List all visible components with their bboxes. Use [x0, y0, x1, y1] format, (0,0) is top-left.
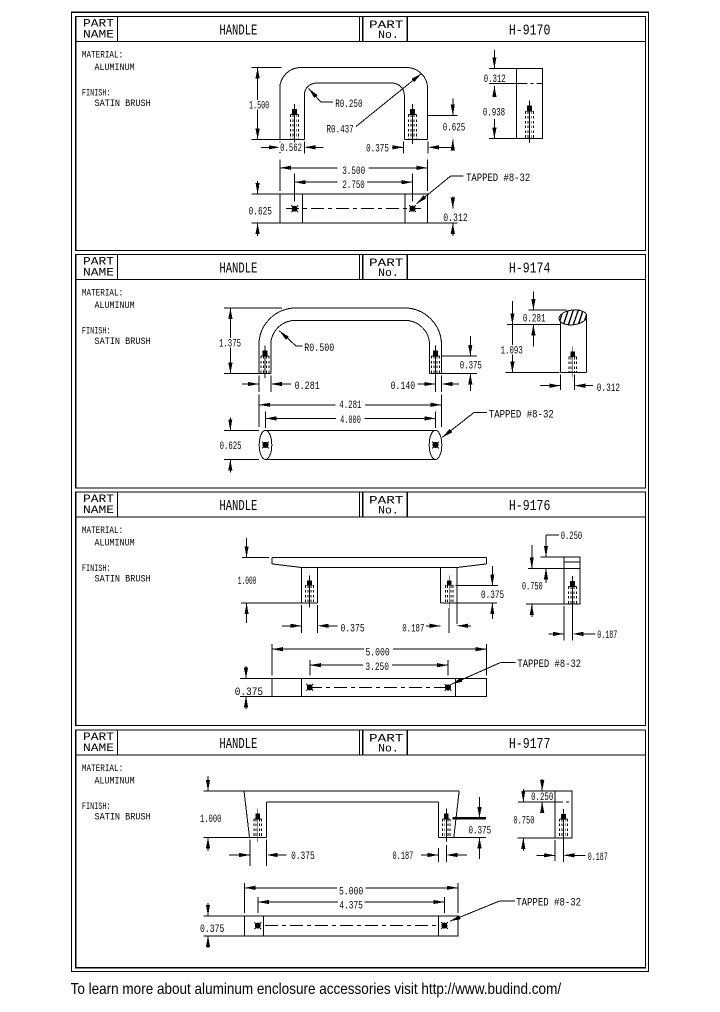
svg-text:No.: No.	[378, 30, 399, 42]
svg-text:H-9174: H-9174	[509, 260, 551, 277]
svg-text:TAPPED #8-32: TAPPED #8-32	[517, 659, 581, 671]
svg-text:MATERIAL:: MATERIAL:	[82, 51, 123, 62]
svg-text:0.938: 0.938	[483, 108, 505, 120]
svg-text:1.375: 1.375	[219, 339, 241, 351]
svg-text:R0.250: R0.250	[335, 99, 362, 111]
svg-text:0.375: 0.375	[366, 144, 389, 156]
svg-text:To learn more about aluminum e: To learn more about aluminum enclosure a…	[71, 981, 562, 998]
svg-text:0.375: 0.375	[200, 924, 224, 936]
svg-text:4.375: 4.375	[339, 900, 363, 912]
svg-text:HANDLE: HANDLE	[219, 261, 257, 277]
svg-text:0.625: 0.625	[220, 441, 242, 453]
svg-text:ALUMINUM: ALUMINUM	[95, 301, 135, 312]
svg-text:0.562: 0.562	[280, 143, 302, 155]
svg-text:SATIN BRUSH: SATIN BRUSH	[95, 99, 151, 110]
svg-text:H-9176: H-9176	[509, 498, 551, 515]
svg-text:3.250: 3.250	[365, 662, 389, 674]
svg-text:0.375: 0.375	[291, 851, 315, 863]
svg-text:0.375: 0.375	[460, 361, 482, 373]
svg-text:SATIN BRUSH: SATIN BRUSH	[95, 812, 151, 823]
svg-text:0.312: 0.312	[443, 213, 468, 225]
svg-text:0.187: 0.187	[402, 623, 424, 635]
svg-text:No.: No.	[378, 268, 399, 280]
svg-text:TAPPED #8-32: TAPPED #8-32	[489, 409, 554, 421]
svg-text:0.187: 0.187	[597, 630, 617, 642]
svg-text:0.750: 0.750	[513, 815, 534, 827]
svg-text:4.281: 4.281	[339, 400, 361, 412]
svg-text:NAME: NAME	[83, 505, 114, 517]
svg-text:0.625: 0.625	[443, 123, 466, 135]
svg-text:H-9170: H-9170	[509, 22, 551, 39]
svg-text:R0.500: R0.500	[304, 343, 334, 355]
svg-text:0.312: 0.312	[597, 383, 620, 395]
svg-text:SATIN BRUSH: SATIN BRUSH	[95, 337, 151, 348]
svg-text:HANDLE: HANDLE	[219, 737, 257, 753]
svg-text:R0.437: R0.437	[327, 125, 354, 137]
svg-text:NAME: NAME	[83, 268, 114, 280]
svg-text:5.000: 5.000	[365, 648, 389, 660]
svg-text:No.: No.	[378, 506, 399, 518]
svg-text:0.187: 0.187	[588, 852, 608, 864]
svg-text:2.750: 2.750	[342, 180, 364, 192]
svg-text:0.750: 0.750	[522, 581, 543, 593]
svg-text:4.000: 4.000	[340, 415, 361, 427]
svg-text:1.000: 1.000	[200, 814, 221, 826]
svg-text:0.375: 0.375	[341, 623, 365, 635]
svg-text:0.312: 0.312	[484, 74, 506, 86]
svg-text:1.000: 1.000	[238, 576, 257, 588]
svg-text:0.281: 0.281	[523, 313, 546, 325]
svg-text:0.375: 0.375	[481, 590, 504, 602]
svg-text:0.375: 0.375	[468, 825, 491, 837]
svg-text:0.250: 0.250	[561, 531, 583, 543]
svg-text:MATERIAL:: MATERIAL:	[82, 526, 123, 537]
svg-text:0.625: 0.625	[249, 207, 272, 219]
svg-text:TAPPED #8-32: TAPPED #8-32	[516, 897, 581, 909]
svg-text:0.187: 0.187	[393, 851, 414, 863]
svg-text:SATIN BRUSH: SATIN BRUSH	[95, 574, 151, 585]
svg-text:1.500: 1.500	[249, 100, 269, 112]
svg-text:ALUMINUM: ALUMINUM	[95, 539, 135, 550]
svg-text:3.500: 3.500	[342, 166, 365, 178]
svg-text:ALUMINUM: ALUMINUM	[95, 63, 135, 74]
svg-text:H-9177: H-9177	[509, 736, 551, 753]
svg-text:TAPPED #8-32: TAPPED #8-32	[466, 173, 530, 185]
svg-text:HANDLE: HANDLE	[219, 499, 257, 515]
svg-text:0.140: 0.140	[391, 381, 416, 393]
svg-text:NAME: NAME	[83, 743, 114, 755]
svg-text:NAME: NAME	[83, 30, 114, 42]
svg-text:1.093: 1.093	[501, 346, 523, 358]
svg-text:HANDLE: HANDLE	[219, 23, 257, 39]
svg-text:0.250: 0.250	[531, 792, 553, 804]
svg-text:MATERIAL:: MATERIAL:	[82, 764, 123, 775]
svg-text:5.000: 5.000	[339, 886, 363, 898]
svg-text:0.375: 0.375	[235, 687, 263, 699]
svg-text:0.281: 0.281	[295, 381, 320, 393]
svg-text:MATERIAL:: MATERIAL:	[82, 289, 123, 300]
svg-text:ALUMINUM: ALUMINUM	[95, 777, 135, 788]
svg-text:No.: No.	[378, 744, 399, 756]
